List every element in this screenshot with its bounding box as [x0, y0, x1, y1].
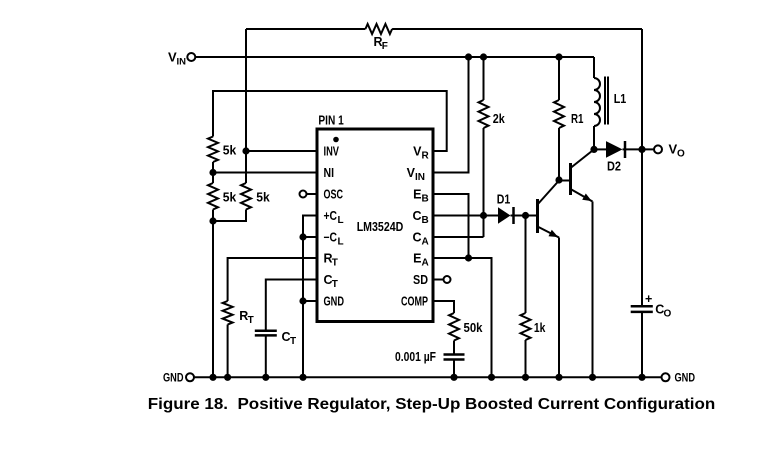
svg-text:R1: R1 [571, 112, 584, 126]
svg-text:T: T [248, 315, 254, 326]
svg-text:R: R [422, 151, 430, 162]
svg-text:O: O [664, 309, 672, 320]
svg-text:T: T [332, 279, 338, 290]
svg-text:GND: GND [163, 371, 184, 385]
svg-text:LM3524D: LM3524D [357, 220, 404, 234]
svg-text:T: T [290, 336, 296, 347]
svg-text:SD: SD [413, 273, 428, 287]
svg-text:B: B [422, 194, 429, 205]
svg-text:+C: +C [324, 209, 338, 223]
svg-text:GND: GND [675, 371, 696, 385]
svg-text:A: A [422, 258, 429, 269]
svg-text:A: A [422, 237, 429, 248]
svg-text:L: L [338, 237, 344, 248]
svg-text:INV: INV [324, 145, 340, 159]
svg-text:+: + [645, 292, 652, 306]
svg-text:COMP: COMP [401, 295, 428, 309]
svg-text:C: C [412, 209, 421, 223]
svg-text:OSC: OSC [324, 188, 344, 202]
svg-text:IN: IN [177, 57, 187, 68]
svg-text:C: C [412, 231, 421, 245]
svg-text:2k: 2k [493, 112, 505, 126]
svg-text:0.001 µF: 0.001 µF [395, 350, 436, 364]
svg-text:Figure 18. Positive Regulator: Figure 18. Positive Regulator, Step-Up B… [148, 396, 716, 413]
svg-text:50k: 50k [464, 321, 483, 335]
svg-text:L: L [338, 215, 344, 226]
svg-text:E: E [413, 188, 421, 202]
svg-text:1k: 1k [534, 321, 546, 335]
svg-text:−C: −C [324, 231, 338, 245]
svg-text:T: T [332, 258, 338, 269]
svg-text:D2: D2 [607, 160, 621, 174]
svg-text:5k: 5k [223, 191, 237, 205]
svg-text:B: B [422, 215, 429, 226]
svg-text:E: E [413, 252, 421, 266]
svg-text:PIN 1: PIN 1 [318, 114, 343, 128]
svg-text:IN: IN [415, 172, 425, 183]
svg-text:D1: D1 [497, 193, 511, 207]
svg-text:NI: NI [324, 166, 335, 180]
svg-text:O: O [677, 149, 685, 160]
svg-text:5k: 5k [223, 143, 237, 157]
svg-text:5k: 5k [256, 191, 270, 205]
svg-text:GND: GND [324, 295, 345, 309]
svg-text:F: F [382, 41, 388, 52]
svg-text:L1: L1 [614, 92, 627, 106]
